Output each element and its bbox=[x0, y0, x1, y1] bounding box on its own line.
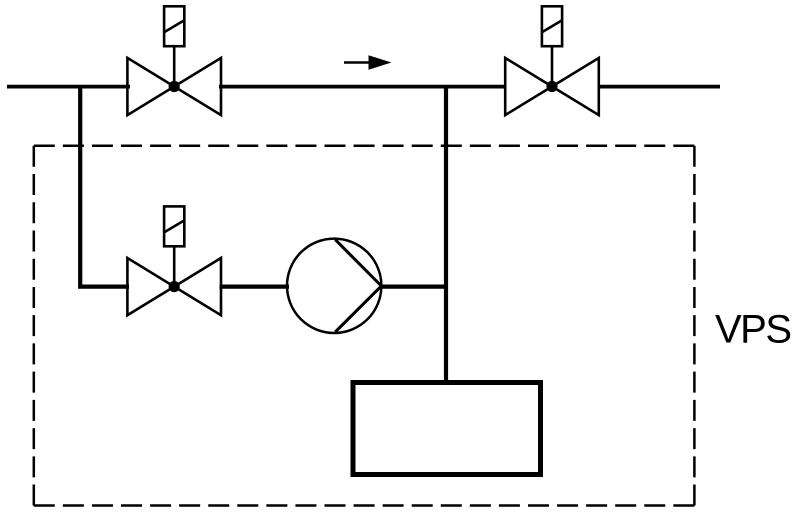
main gas pipe between V1 and V2 bbox=[219, 85, 506, 89]
flow direction arrow bbox=[344, 55, 392, 69]
VPS boundary, dashed enclosure top edge bbox=[34, 145, 695, 148]
VPS boundary, dashed enclosure bottom edge bbox=[34, 504, 695, 507]
solenoid valve V1 (safety shut-off valve 1 with actuator) bbox=[127, 6, 221, 115]
solenoid valve V3 (bypass/test valve with actuator) bbox=[127, 206, 221, 315]
vertical sensing/test pipe from main line to control unit bbox=[444, 87, 448, 382]
branch pipe from main line down and right to valve V3 bbox=[78, 87, 129, 287]
solenoid valve V2 (safety shut-off valve 2 with actuator) bbox=[505, 6, 599, 115]
pipe from V3 to pump P1 bbox=[220, 285, 290, 289]
main gas pipe, right segment bbox=[598, 85, 720, 89]
VPS boundary, dashed enclosure right edge bbox=[693, 146, 696, 506]
pipe from pump P1 to sensing line bbox=[381, 285, 448, 289]
svg-text:VPS: VPS bbox=[715, 307, 791, 351]
VPS boundary, dashed enclosure left edge bbox=[33, 146, 36, 506]
VPS control unit box bbox=[353, 383, 541, 475]
pump P1 (test pump, circle with triangle) bbox=[287, 239, 381, 333]
main gas supply pipe, left segment bbox=[7, 85, 130, 89]
